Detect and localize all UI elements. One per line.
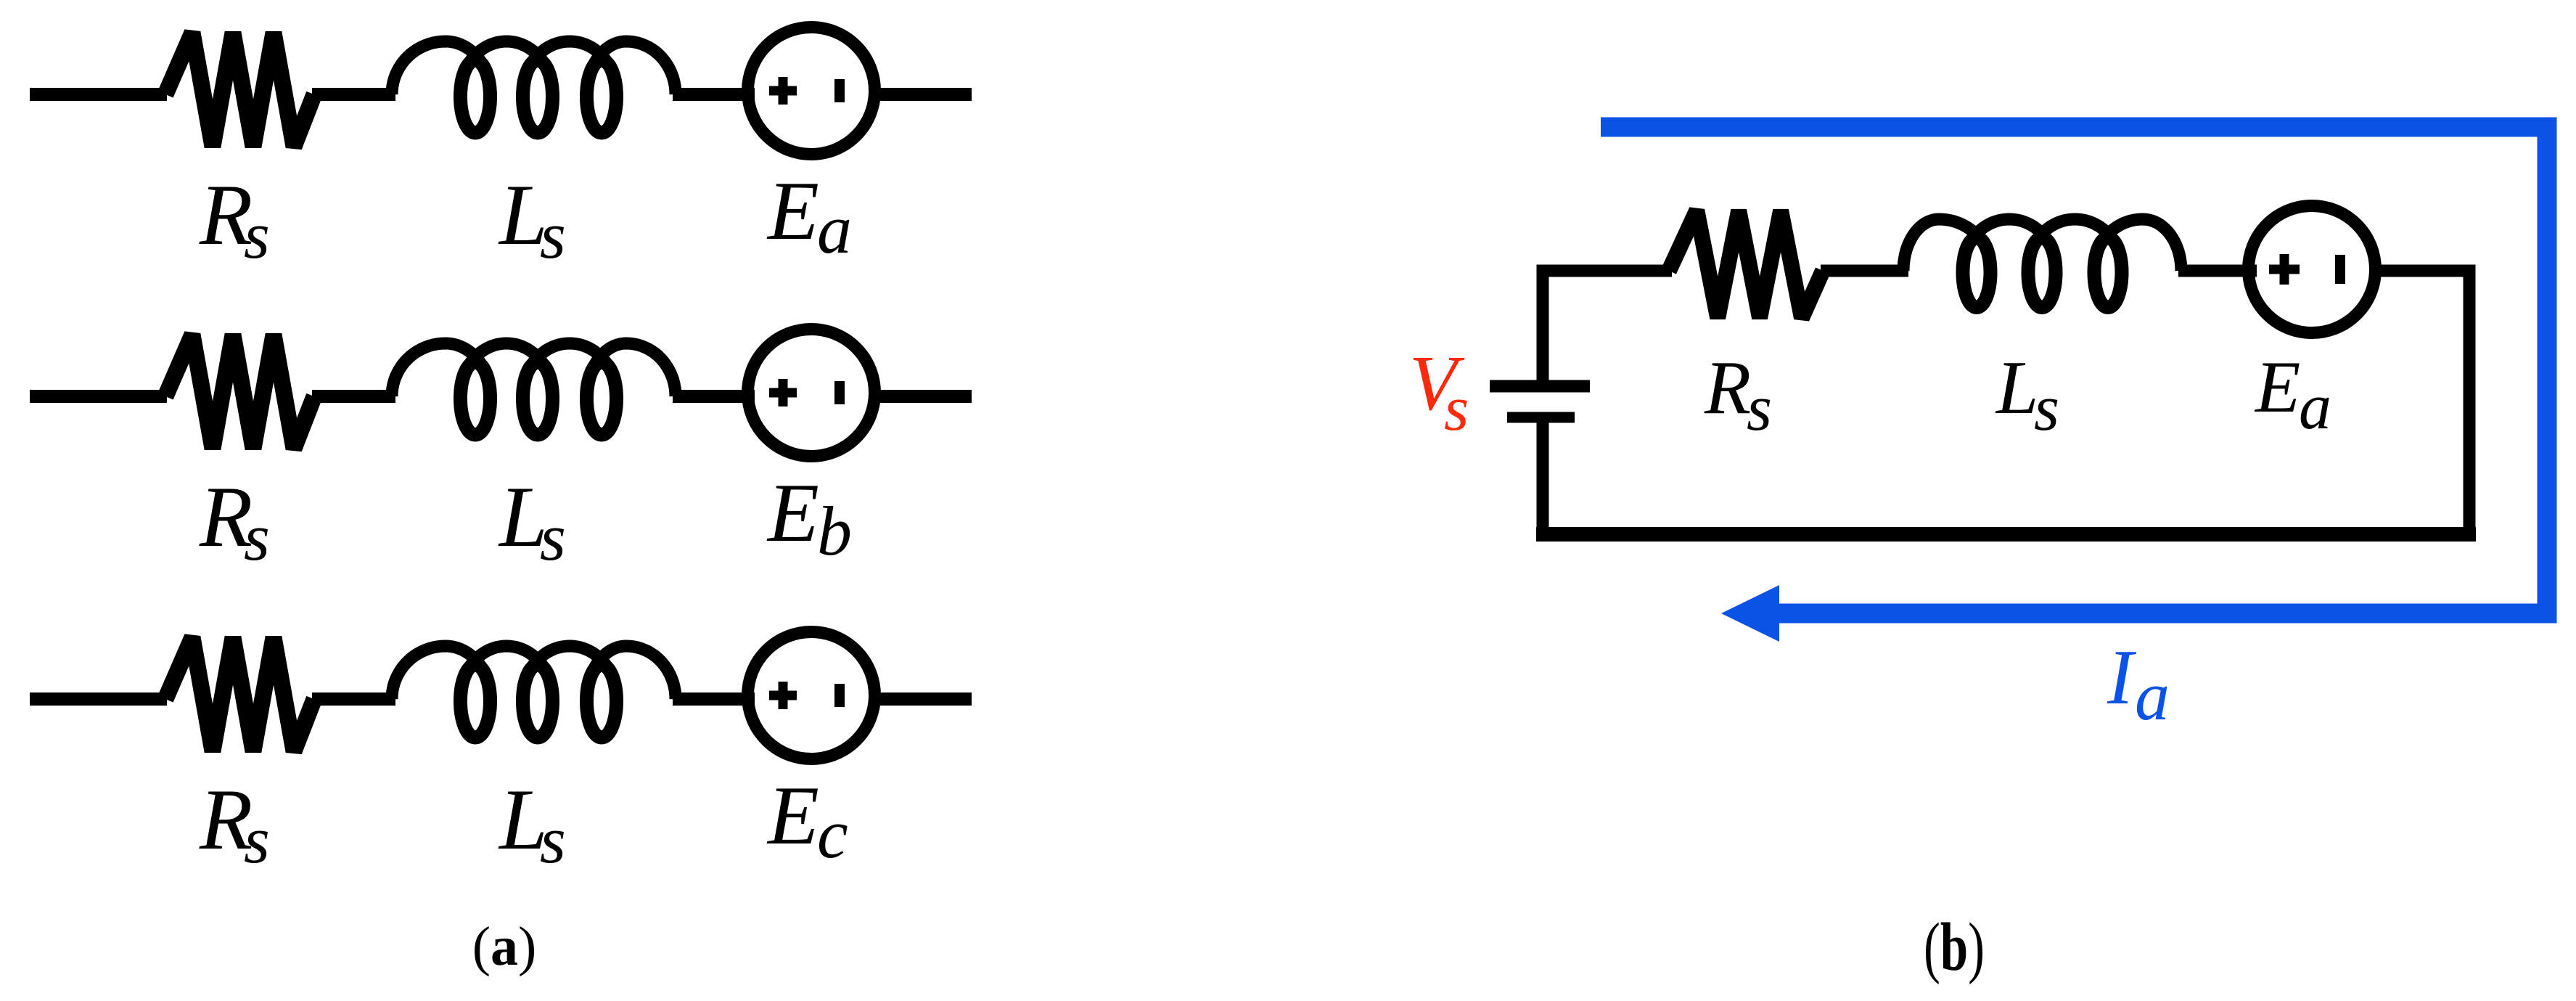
svg-text:a: a [2135,657,2170,735]
wire row2 inductor-to-source [673,390,755,403]
wire b: left vertical upper + top-left segment [1543,271,1672,383]
wire row1 resistor-to-inductor [312,88,395,101]
svg-text:c: c [817,795,848,873]
wire b: source-to-right vertical + right vertical [2374,271,2469,540]
svg-text:s: s [540,198,566,272]
svg-text:(a): (a) [472,916,537,977]
svg-text:s: s [244,500,270,574]
svg-text:s: s [244,803,270,877]
wire row2 right lead [874,390,972,403]
svg-text:s: s [540,803,566,877]
wire row1 inductor-to-source [673,88,755,101]
resistor Rs row2 [165,335,314,449]
inductor Ls row2 [392,343,486,396]
svg-text:E: E [766,467,819,560]
inductor Ls (b) [1903,219,1987,271]
resistor Rs (b) [1669,211,1823,318]
svg-text:R: R [1704,345,1751,430]
blue arrowhead of Ia [1721,585,1779,642]
svg-text:a: a [2299,371,2331,443]
svg-text:s: s [244,198,270,272]
inductor Ls row3 [392,646,486,699]
wire row1 right lead [874,88,972,101]
voltage source Eb [748,330,875,457]
wire row2 left lead [30,390,167,403]
wire row3 resistor-to-inductor [312,692,395,706]
svg-text:E: E [766,165,819,258]
battery Vs top plate [1490,380,1590,393]
svg-text:E: E [766,769,819,862]
voltage source Ec [748,632,875,759]
wire b: bottom wire [1536,527,2476,542]
svg-text:b: b [817,492,852,570]
blue current path wire [1601,127,2547,613]
voltage source Ea (b) [2249,206,2376,333]
resistor Rs row1 [165,33,314,147]
wire b resistor-to-inductor [1821,265,1908,277]
wire row3 left lead [30,692,167,706]
wire row2 resistor-to-inductor [312,390,395,403]
resistor Rs row3 [165,637,314,751]
battery Vs bottom plate [1507,412,1575,423]
svg-text:s: s [540,500,566,574]
svg-text:(b): (b) [1924,910,1985,985]
svg-text:a: a [817,190,852,268]
svg-text:s: s [1747,372,1772,444]
svg-text:E: E [2254,346,2300,428]
wire row1 left lead [30,88,167,101]
wire row3 inductor-to-source [673,692,755,706]
inductor Ls row1 [392,41,486,94]
svg-text:s: s [2034,372,2059,444]
wire row3 right lead [874,692,972,706]
svg-text:s: s [1444,374,1469,444]
wire b: left vertical lower [1537,418,1549,540]
svg-text:L: L [1995,345,2038,430]
svg-text:I: I [2107,634,2137,721]
voltage source Ea [748,28,875,155]
wire b inductor-to-source [2178,265,2257,277]
